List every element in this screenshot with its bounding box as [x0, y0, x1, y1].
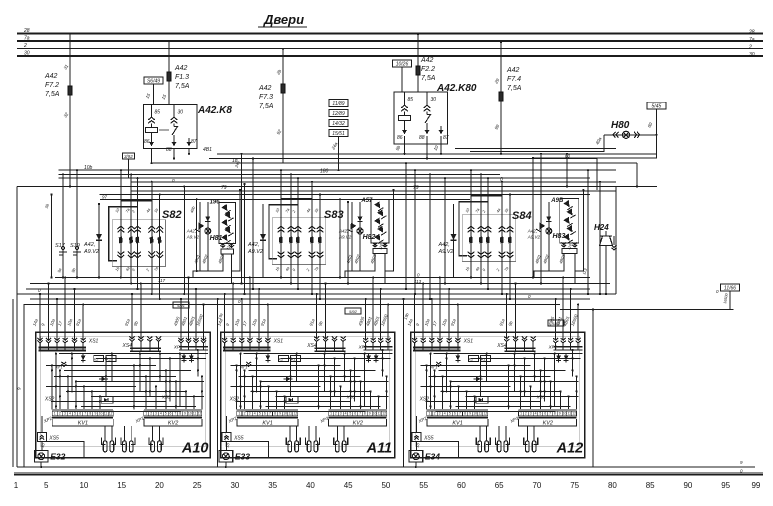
wire E34 ground: [415, 462, 417, 467]
svg-text:95: 95: [721, 481, 730, 490]
bracket KV2 A11: [329, 419, 387, 426]
A11 mesh wire v: [386, 376, 388, 409]
ref box S6/49: [144, 77, 163, 84]
A12 mesh wire v: [572, 350, 574, 376]
ref box 11/89: [329, 100, 348, 107]
A12 relay K5 box: [476, 396, 488, 403]
svg-text:30: 30: [178, 110, 184, 116]
wire gap ground drop 2: [403, 299, 405, 467]
S82 contact 2 chevron down: [128, 255, 135, 258]
S82 contact 4 blade: [150, 237, 154, 244]
S84 contact 2 chevron up: [478, 226, 485, 229]
wire into A11 14a: [224, 294, 226, 339]
A10 mesh wire v: [105, 358, 107, 396]
A10 mesh wire v: [159, 354, 161, 382]
A12 mesh wire v: [458, 386, 460, 409]
svg-text:3: 3: [64, 412, 66, 416]
svg-text:F7.4: F7.4: [507, 76, 521, 83]
A11 mesh wire v: [344, 354, 346, 382]
svg-text:KV1: KV1: [452, 420, 462, 426]
svg-text:XS3: XS3: [161, 394, 171, 399]
svg-text:KV2: KV2: [168, 420, 178, 426]
LED 3 in S84 box: [563, 217, 572, 227]
A11 mesh wire h: [281, 357, 391, 359]
S82 contact 5 chevron up: [156, 226, 163, 229]
wire into A10 91a: [131, 294, 133, 339]
S84 contact column wire 2: [480, 174, 482, 283]
A12 mesh wire h: [441, 390, 561, 392]
svg-text:7a: 7a: [24, 36, 30, 42]
svg-text:55: 55: [419, 481, 428, 490]
svg-text:7,5A: 7,5A: [421, 75, 436, 82]
A12 diode V2: [558, 353, 560, 362]
S82 contact 3 blade: [135, 237, 139, 244]
S82 LED box wire right: [231, 243, 233, 247]
svg-text:A42.K8: A42.K8: [197, 105, 232, 116]
wire vertical x533: [532, 158, 534, 278]
svg-text:XS2: XS2: [229, 396, 240, 402]
LED box S82: [219, 202, 236, 243]
wire K8-87 down: [188, 148, 190, 154]
S82 contact 4 chevron down: [148, 255, 155, 258]
svg-text:S83: S83: [324, 209, 344, 221]
S82 lamp wire 2: [207, 202, 209, 271]
A10 diode V3: [190, 353, 192, 362]
wire into A11 17: [249, 278, 251, 340]
A11 mesh wire v: [284, 396, 286, 409]
svg-text:65: 65: [495, 481, 504, 490]
S83 contact 5 chevron up: [317, 226, 324, 229]
svg-text:3: 3: [439, 412, 441, 416]
connector XS5 A11: [222, 433, 231, 442]
S84 connector box: [562, 249, 577, 254]
wire into A12 4905: [555, 299, 557, 339]
wire H80 to 5/45: [655, 109, 657, 135]
S83 lamp module drop wires: [345, 254, 375, 278]
svg-text:A42,: A42,: [186, 229, 196, 234]
A12 mesh wire h: [466, 395, 579, 397]
S82 contact 3 chevron down: [134, 255, 141, 258]
svg-text:A42,: A42,: [438, 242, 450, 248]
svg-text:A12: A12: [556, 440, 584, 456]
wire band A y153: [217, 153, 657, 155]
bus line 28: [17, 33, 763, 35]
LED 4 in S84 box: [566, 225, 575, 235]
svg-text:S19: S19: [70, 243, 80, 249]
ref box 11/66: [721, 284, 740, 291]
A12 diode V1: [457, 353, 459, 362]
wire into A10 16500: [203, 305, 205, 340]
ground bus: [17, 466, 755, 468]
svg-text:8: 8: [179, 412, 181, 416]
A12 mesh wire v: [434, 370, 436, 409]
A10 diode V2: [183, 353, 185, 362]
S84 contact column wire 4: [501, 182, 503, 294]
A11 mesh wire v: [244, 370, 246, 409]
svg-text:3: 3: [155, 412, 157, 416]
connector block A12 inner box: [416, 336, 580, 446]
wire into A10 17: [64, 278, 66, 340]
wire K8-86 down: [151, 148, 153, 163]
S83 lamp diode: [357, 216, 362, 221]
A11 mesh wire h: [231, 385, 321, 387]
svg-text:H82: H82: [363, 234, 376, 241]
S83 contact column wire 4: [311, 182, 313, 294]
wire vertical x541: [540, 154, 542, 284]
diode A42 A9.V S82: [98, 204, 100, 278]
svg-text:XS1: XS1: [88, 338, 99, 344]
svg-text:5: 5: [165, 412, 167, 416]
svg-text:86: 86: [397, 135, 403, 141]
svg-text:F2.2: F2.2: [421, 66, 435, 73]
svg-text:12: 12: [109, 412, 113, 416]
terminal strip XP3 A12: [519, 408, 577, 410]
A10 mesh wire v: [197, 350, 199, 376]
switch S84 gang bar 1: [471, 195, 502, 197]
relay box A42.K80: [394, 92, 448, 144]
S82 contact 1 chevron down: [118, 255, 125, 258]
A10 mesh wire v: [83, 386, 85, 409]
wire band A y195: [100, 194, 591, 196]
K80 pin 86 arrow: [402, 130, 407, 134]
svg-text:4: 4: [345, 412, 347, 416]
bus line 30: [17, 55, 763, 57]
svg-text:4B1: 4B1: [203, 147, 212, 153]
svg-text:30: 30: [431, 97, 437, 103]
svg-text:2: 2: [525, 412, 527, 416]
svg-text:F7.2: F7.2: [45, 82, 59, 89]
svg-text:4: 4: [444, 412, 446, 416]
A10 mesh wire v: [201, 376, 203, 409]
wire XS5 A11: [226, 416, 228, 433]
svg-text:9: 9: [369, 412, 371, 416]
S82 contact column wire 3: [137, 178, 139, 289]
svg-text:50: 50: [381, 481, 390, 490]
S82 contact 3 chevron up: [134, 226, 141, 229]
switch S82 gang bar 1: [121, 200, 152, 202]
svg-text:180: 180: [320, 169, 329, 175]
wire into A10 10a: [56, 299, 58, 339]
plug XA10120.1: [149, 437, 153, 444]
A10 mesh wire v: [91, 391, 93, 409]
svg-text:97: 97: [102, 195, 108, 200]
wire vertical x567: [566, 154, 568, 187]
wire into A10 4905: [180, 299, 182, 339]
LED 1 in S83 box: [374, 201, 383, 211]
svg-text:KV2: KV2: [353, 420, 363, 426]
wire XS5 step A11: [231, 442, 350, 458]
svg-text:87: 87: [443, 135, 449, 141]
A11 mesh wire v: [360, 381, 362, 409]
switch block S84 inner box: [462, 215, 515, 262]
A11 mesh wire v: [240, 354, 242, 410]
A11 relay K3 box: [291, 356, 301, 362]
wire 10/26 down: [401, 67, 403, 92]
wire into A11 91a: [316, 294, 318, 339]
S84 LED box wire right: [574, 243, 576, 247]
A12 contact row XP1: [553, 341, 558, 343]
A10 mesh wire v: [55, 354, 57, 410]
svg-text:F1.3: F1.3: [175, 74, 189, 81]
svg-text:XS5: XS5: [233, 435, 244, 441]
wire into A11 9: [232, 284, 234, 340]
ref box 5/93: [548, 320, 564, 326]
svg-text:8: 8: [554, 412, 556, 416]
LED 2 in S83 box: [377, 209, 386, 219]
A12 mesh wire h: [439, 369, 566, 371]
S82 contact 2 chevron up: [128, 226, 135, 229]
A10 mesh wire v: [149, 358, 151, 396]
S82 contact 4 chevron up: [148, 226, 155, 229]
A11 mesh wire v: [382, 350, 384, 376]
svg-text:KV1: KV1: [262, 420, 272, 426]
wire band A y170: [58, 169, 616, 171]
A11 mesh wire v: [318, 365, 320, 409]
svg-text:A42: A42: [506, 67, 520, 74]
svg-text:12: 12: [293, 412, 297, 416]
K8 coil: [151, 124, 153, 128]
svg-text:5: 5: [74, 412, 76, 416]
wire vertical x51.5: [51, 195, 53, 278]
A11 mesh wire h: [266, 405, 381, 407]
wire into A12 4801: [562, 278, 564, 340]
H80 wire: [604, 134, 657, 136]
svg-text:4: 4: [535, 412, 537, 416]
A11 mesh wire h: [251, 390, 371, 392]
svg-text:6: 6: [544, 412, 546, 416]
wire gap ground drop 1: [217, 299, 219, 467]
A10 mesh wire h: [54, 375, 176, 377]
svg-text:5/92: 5/92: [349, 309, 358, 314]
svg-text:117: 117: [158, 278, 166, 283]
A12 XS1 bus lines: [413, 346, 461, 348]
svg-text:7,5A: 7,5A: [507, 85, 522, 92]
wire band A y199: [100, 198, 470, 200]
S84 lamp symbol: [546, 228, 552, 234]
A10 mesh wire v: [75, 381, 77, 409]
wire into A12 9: [422, 284, 424, 340]
A12 mesh wire v: [534, 354, 536, 382]
A12 mesh wire h: [451, 380, 579, 382]
S83 contact 1 chevron down: [278, 255, 285, 258]
svg-text:28: 28: [23, 28, 30, 34]
ref box 12/89: [329, 110, 348, 117]
wire band B y283: [30, 283, 610, 285]
svg-text:86: 86: [144, 139, 150, 145]
svg-text:113: 113: [414, 279, 422, 284]
A11 mesh wire v: [290, 358, 292, 396]
S83 contact 1 chevron up: [278, 226, 285, 229]
wire into A11 4B01: [380, 289, 382, 339]
S82 LED box wire left: [222, 243, 224, 247]
A12 mesh wire v: [466, 391, 468, 409]
A12 relay K3 box: [481, 356, 491, 362]
S82 contact 5 chevron down: [156, 255, 163, 258]
svg-text:45: 45: [344, 481, 353, 490]
svg-text:1: 1: [145, 412, 147, 416]
A11 mesh wire v: [256, 354, 258, 393]
S83 contact 5 blade: [318, 237, 322, 244]
wire into A12 91a: [457, 305, 459, 340]
ref box 5/45: [647, 102, 666, 109]
svg-text:75: 75: [570, 481, 579, 490]
switch S84 gang bar 2: [459, 202, 488, 256]
A10 mesh wire h: [64, 369, 191, 371]
plug wires A11: [308, 426, 310, 441]
wire vertical x244.6: [244, 184, 246, 294]
svg-text:80: 80: [608, 481, 617, 490]
K8 pin 88 arrow: [172, 142, 177, 146]
S82 contact 5 blade: [158, 237, 162, 244]
wire into A11 91a: [267, 305, 269, 340]
A12 mesh wire v: [474, 396, 476, 409]
S84 contact 5 chevron up: [507, 226, 514, 229]
S82 lamp module U wire: [232, 190, 241, 271]
svg-text:8: 8: [364, 412, 366, 416]
A12 diode mid: [474, 378, 483, 380]
A11 contact row XP1: [363, 341, 368, 343]
plug XA12120.1: [524, 437, 528, 444]
wire into A10 10a: [74, 289, 76, 339]
bracket KV2 A12: [519, 419, 577, 426]
A11 mesh wire v: [252, 376, 254, 409]
A12 mesh wire v: [450, 381, 452, 409]
svg-text:5/91: 5/91: [177, 303, 185, 308]
wire drop F1.3: [168, 41, 170, 104]
K80 switch: [426, 112, 428, 115]
A10 relay K5 box: [101, 396, 113, 403]
S84 contact column wire 1: [470, 170, 472, 277]
A10 contact row XP1: [178, 341, 183, 343]
wire into A11 9b: [325, 284, 327, 340]
plug wires A10: [123, 426, 125, 441]
A10 mesh wire v: [155, 386, 157, 409]
svg-text:7,5A: 7,5A: [175, 83, 190, 90]
svg-text:S84: S84: [512, 210, 532, 222]
wire band A y158: [209, 158, 597, 160]
wire vertical x241.5: [241, 154, 243, 284]
S83 lamp wire 2: [359, 202, 361, 271]
switch S83 gang bar 1: [281, 198, 312, 200]
A10 mesh wire v: [71, 354, 73, 393]
switch block S82 inner box: [112, 220, 165, 267]
svg-text:12: 12: [483, 412, 487, 416]
bus line 7a: [17, 40, 763, 42]
relay box A42.K8: [144, 105, 198, 149]
A12 relay K2 box: [468, 356, 478, 362]
A11 contact row XS4: [314, 339, 319, 341]
A11 relay K2 box: [278, 356, 288, 362]
svg-text:A42,: A42,: [527, 229, 537, 234]
connector block A11 inner box: [226, 336, 390, 446]
A10 mesh wire h: [91, 395, 204, 397]
wire E32 ground: [40, 462, 42, 467]
S84 contact 2 chevron down: [478, 255, 485, 258]
A10 XS1 bus lines: [39, 346, 87, 348]
svg-text:A9.V2: A9.V2: [247, 249, 263, 255]
S84 contact 4 chevron down: [499, 255, 506, 258]
LED 4 in S83 box: [377, 226, 386, 236]
svg-text:11: 11: [289, 412, 293, 416]
svg-text:196: 196: [210, 200, 221, 206]
wire vertical x196.7: [196, 199, 198, 271]
fuse F1.3: [167, 72, 171, 81]
svg-text:H83: H83: [553, 233, 566, 240]
plug wires A12: [526, 426, 528, 441]
LED 4 in S82 box: [224, 226, 233, 236]
LED 1 in S84 box: [563, 200, 572, 210]
svg-text:9: 9: [279, 412, 281, 416]
S84 contact 5 blade: [508, 237, 512, 244]
svg-text:2: 2: [434, 412, 436, 416]
S83 lamp led: [347, 223, 356, 233]
wire E33 ground: [225, 462, 227, 467]
A10 mesh wire v: [179, 354, 181, 407]
svg-text:7: 7: [174, 412, 176, 416]
svg-text:10: 10: [373, 412, 377, 416]
S82 contact 1 chevron up: [118, 226, 125, 229]
A12 mesh wire h: [471, 357, 581, 359]
S82 lamp wire 1: [199, 202, 201, 271]
plug wires A11: [289, 426, 291, 441]
S83 contact 1 blade: [279, 237, 283, 244]
A12 mesh wire h: [421, 385, 511, 387]
svg-text:10: 10: [283, 412, 287, 416]
S83 contact column wire 2: [290, 174, 292, 283]
A11 mesh wire v: [296, 354, 298, 382]
A11 mesh wire v: [354, 358, 356, 401]
svg-text:9: 9: [94, 412, 96, 416]
svg-text:A57: A57: [360, 198, 373, 204]
S84 contact 5 chevron down: [507, 255, 514, 258]
svg-text:11/89: 11/89: [332, 101, 344, 107]
A10 mesh wire h: [96, 357, 206, 359]
wire vertical x430: [429, 174, 431, 299]
svg-text:10/26: 10/26: [396, 62, 409, 68]
S82 contact column wire 2: [130, 174, 132, 283]
connector XS5 A10: [37, 433, 46, 442]
A12 mesh wire v: [426, 365, 428, 409]
A12 mesh wire v: [480, 358, 482, 396]
K8 contact 30: [173, 105, 175, 117]
svg-text:10: 10: [473, 412, 477, 416]
ref box 5/91: [173, 302, 189, 308]
bracket KV1 A10: [52, 419, 113, 426]
svg-text:15: 15: [117, 481, 126, 490]
A10 contact pair: [62, 364, 67, 366]
plug wires A12: [498, 426, 500, 441]
wire H80 down: [533, 135, 656, 158]
svg-text:1: 1: [54, 412, 56, 416]
wire into A12 4B01: [570, 289, 572, 339]
S82 lamp module drop wires: [193, 254, 223, 278]
S84 contact 3 chevron up: [485, 226, 492, 229]
svg-text:11/66: 11/66: [724, 286, 736, 292]
switch S82 gang bar 2: [109, 207, 138, 261]
svg-text:6: 6: [454, 412, 456, 416]
A11 mesh wire v: [364, 354, 366, 407]
wire into A11 4801: [372, 278, 374, 340]
H80 contact right: [637, 132, 640, 138]
A10 contact row XS1: [37, 341, 42, 343]
svg-text:KV2: KV2: [543, 420, 553, 426]
plug XA1172.6: [286, 437, 290, 444]
wire into A12 17: [439, 278, 441, 340]
A12 mesh wire v: [446, 354, 448, 393]
A11 mesh wire h: [261, 380, 389, 382]
connector block A10 inner box: [41, 336, 205, 446]
LED 2 in S82 box: [224, 211, 233, 221]
